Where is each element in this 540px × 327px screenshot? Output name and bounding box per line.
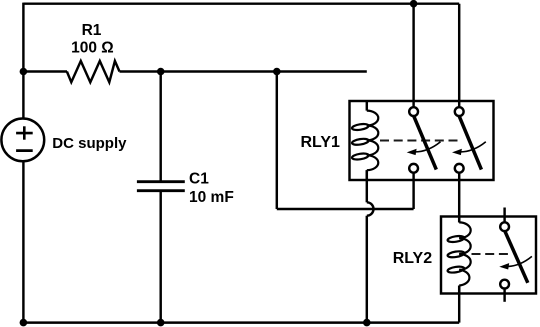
svg-text:RLY1: RLY1 [301, 134, 341, 151]
svg-text:R1: R1 [82, 22, 102, 39]
RLY2 coil bottom lead inside box [458, 286, 460, 295]
RLY2 dashed actuation line [472, 253, 511, 255]
wire: bottom bus from DC supply branch to RLY2 coil branch [23, 321, 459, 323]
RLY2 switch top pin [500, 222, 509, 231]
relay RLY2 box [441, 217, 536, 294]
wire: C1 bottom lead [159, 191, 161, 323]
wire: left vertical from top bus down to DC supply top terminal [22, 3, 24, 119]
RLY1 switch 2 blade [459, 116, 481, 169]
plus sign of DC supply [16, 132, 33, 135]
wire: RLY1 coil bottom lead down to hop [366, 170, 368, 202]
wire: junction A2 vertical down from dot (276.8,71) to y=209 [276, 72, 278, 210]
wire: top bus end down to RLY1 switch2 top pin [458, 4, 460, 108]
DC supply source V1 [1, 118, 44, 161]
RLY2 switch top stub (unconnected) [503, 208, 505, 222]
RLY1 dashed actuation line [380, 140, 461, 142]
RLY2 switch bottom stub (unconnected) [503, 289, 505, 302]
RLY1 switch 1 arrow [413, 142, 441, 152]
wire: horizontal from R1 right lead to RLY1 coil top branch [120, 70, 367, 72]
RLY1 coil top lead inside box [366, 100, 368, 111]
RLY1 switch 2 arrow [458, 142, 486, 152]
wire: RLY2 coil bottom down to bottom bus [458, 286, 460, 323]
wire: RLY1 switch2 bottom pin down to RLY2 coil top [458, 173, 460, 223]
minus sign of DC supply [16, 149, 33, 152]
junction dot on top bus at RLY1 switch1 NO branch [410, 0, 418, 8]
svg-text:100 Ω: 100 Ω [71, 39, 114, 56]
RLY2 coil top lead inside box [458, 216, 460, 223]
RLY1 switch 1 blade [414, 116, 437, 169]
wire: from hop down to bottom bus [366, 216, 368, 323]
junction dot RLY1 coil bottom at bottom bus [363, 319, 371, 327]
junction dot node A (left vertical / R1) [20, 68, 28, 76]
RLY1 coil bottom lead inside box [366, 170, 368, 181]
RLY1 coil [352, 111, 379, 171]
junction dot bottom-left corner [20, 319, 28, 327]
RLY2 switch bottom pin [500, 280, 509, 289]
wire: top bus from left vertical to RLY1 switch2 branch [23, 2, 459, 4]
wire: C1 top lead [159, 72, 161, 182]
junction dot C1 bottom [157, 319, 165, 327]
RLY2 switch arrow [505, 256, 532, 266]
wire: top bus branch down to RLY1 switch1 top pin [412, 4, 414, 108]
RLY1 switch 1 bottom pin [409, 164, 418, 173]
junction dot C1 top [157, 68, 165, 76]
wire: left vertical from DC supply bottom terminal to bottom bus [22, 161, 24, 322]
svg-text:10 mF: 10 mF [189, 189, 234, 206]
wire: vertical up from y=209 to RLY1 switch1 bottom pin [412, 173, 414, 210]
resistor R1 [67, 61, 120, 82]
RLY1 switch 2 bottom pin [455, 164, 464, 173]
capacitor C1 [137, 180, 185, 183]
wire hop over y=209 horizontal [367, 202, 374, 215]
svg-text:C1: C1 [189, 171, 209, 188]
wire: node-A horizontal segment from left vertical to R1 left lead [23, 70, 67, 72]
svg-text:DC supply: DC supply [52, 135, 127, 152]
svg-text:RLY2: RLY2 [393, 250, 433, 267]
RLY2 coil [447, 222, 471, 285]
wire: horizontal at y=209 to RLY1 switch1 common pin branch [277, 208, 414, 210]
junction dot RLY1 switch1 common branch [273, 68, 281, 76]
RLY1 switch 2 top pin [455, 107, 464, 116]
RLY2 switch blade [505, 231, 528, 283]
relay RLY1 box [350, 101, 494, 180]
RLY1 switch 1 top pin [409, 107, 418, 116]
